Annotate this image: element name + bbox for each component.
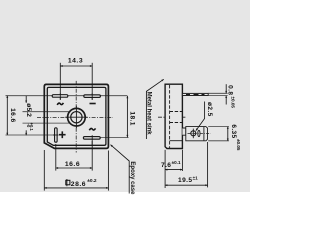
side view body outline (165, 84, 182, 148)
mounting hole inner circle (71, 112, 82, 123)
dim 19.5 line (165, 184, 208, 186)
dim 7.6 extension right (181, 150, 183, 171)
slot crossing ticks (59, 93, 61, 100)
svg-text:18.1: 18.1 (128, 111, 135, 125)
construction line bottom-right slot row y=137.6 (92, 137, 128, 139)
blade thickness extension lines (208, 92, 227, 94)
dim hole 5.2 upper segment (25, 96, 27, 103)
dim 7.6 line (165, 169, 182, 171)
terminal slot top-left (52, 95, 68, 98)
faston tip boundary (203, 127, 205, 141)
faston width extension lines (208, 126, 229, 128)
side view internal line (170, 140, 183, 142)
hole diameter extension lines (23, 111, 71, 113)
side view centerline (158, 116, 187, 118)
label Metal heat sink leader (146, 79, 163, 139)
symbol + bottom-left (59, 131, 66, 138)
svg-text:ø5.2: ø5.2 (25, 103, 32, 117)
faston centerline (188, 133, 211, 135)
dim 16.6 left line (6, 96, 8, 135)
dim 2.5 leader (196, 102, 205, 131)
dim 14.3 extension lines (59, 63, 61, 100)
dim 16.6 bottom line (56, 167, 92, 169)
faston hole centerline (192, 129, 194, 139)
front view body outer outline (44, 84, 108, 148)
svg-text:6.35: 6.35 (230, 124, 237, 138)
svg-text:28.6: 28.6 (71, 181, 86, 188)
hole crosshair (65, 106, 87, 128)
faston dimple (198, 130, 200, 136)
side view hidden boundary dashed (169, 85, 171, 148)
svg-text:±1: ±1 (193, 176, 199, 181)
construction line row top (terminal row y=95.7) (6, 95, 128, 97)
svg-text:0.8: 0.8 (227, 85, 234, 95)
dim 18.1 line (126, 96, 128, 137)
dim 6.35 line (227, 127, 229, 141)
dim 28.6 line (44, 187, 108, 189)
front view horizontal centerline (37, 116, 113, 118)
svg-text:±0.1: ±0.1 (172, 160, 181, 165)
scan background (0, 0, 250, 250)
svg-text:19.5: 19.5 (178, 177, 192, 184)
svg-text:14.3: 14.3 (68, 57, 83, 64)
mounting hole outer circle (68, 108, 86, 126)
svg-text:±0.05: ±0.05 (236, 139, 241, 151)
symbol ~ bottom-right (89, 128, 95, 130)
dim 7.6 extension left (164, 150, 166, 188)
label Epoxy case leader (111, 145, 130, 194)
svg-text:16.6: 16.6 (65, 161, 80, 168)
svg-text:ø2.5: ø2.5 (206, 102, 213, 117)
symbol - top-right (90, 103, 96, 105)
construction line bottom-left slot center y=135 (6, 134, 58, 136)
dim 28.6 extension lines (43, 150, 45, 191)
front view vertical centerline (75, 81, 77, 153)
symbol ~ top-left (57, 103, 63, 105)
svg-text:±0.05: ±0.05 (230, 97, 235, 109)
dim 19.5 extension right (207, 142, 209, 187)
svg-text:7.6: 7.6 (161, 162, 171, 169)
dim 0.8 upper segment (225, 84, 227, 93)
terminal slot bottom-left (vertical) (55, 128, 58, 142)
side view hidden hole lines dashed (170, 111, 183, 113)
terminal slot bottom-right (83, 137, 100, 140)
dim hole 5.2 lower segment (25, 130, 27, 135)
svg-text:16.6: 16.6 (9, 108, 16, 122)
dim 16.6 bottom extension lines (55, 144, 57, 171)
top blade (edge view) (182, 93, 208, 95)
faston blade (186, 127, 208, 141)
dim 14.3 line (60, 65, 92, 67)
terminal slot top-right (84, 95, 101, 98)
svg-text:Epoxy case: Epoxy case (129, 161, 135, 195)
faston hole (191, 131, 196, 136)
front view body inner outline (47, 87, 106, 145)
dim 28.6 square symbol (66, 180, 70, 185)
faston neck (182, 128, 185, 135)
svg-text:±0.2: ±0.2 (87, 178, 97, 184)
dim 0.8 lower segment (225, 96, 227, 105)
svg-text:Metal heat sink: Metal heat sink (146, 92, 152, 136)
